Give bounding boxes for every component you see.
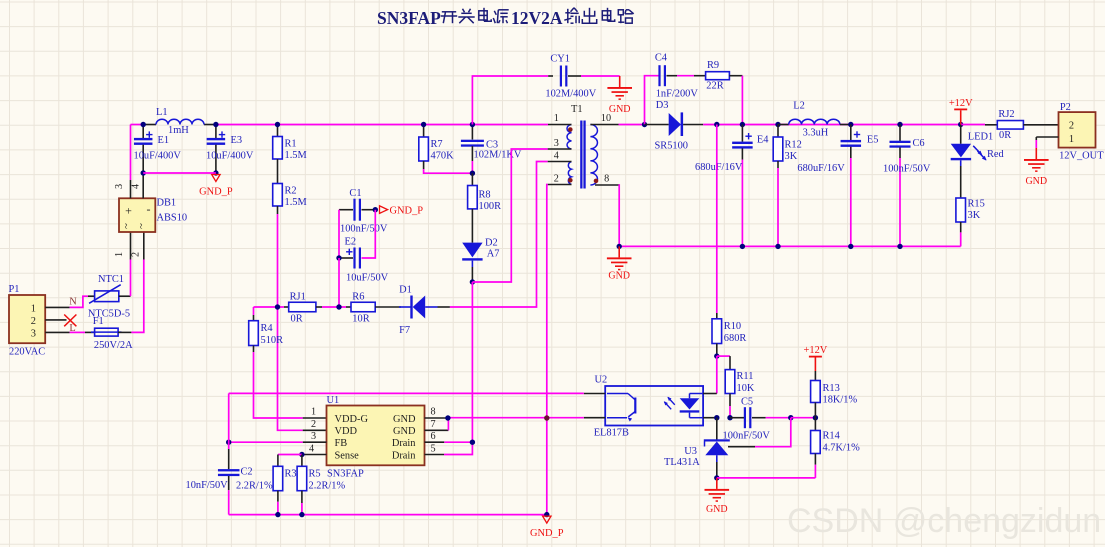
junction U3 anode	[714, 475, 719, 480]
svg-text:-: -	[147, 202, 151, 216]
svg-text:P1: P1	[9, 284, 20, 295]
T1 pin 3	[548, 148, 572, 150]
svg-text:0R: 0R	[291, 314, 303, 325]
T1 pin 4	[548, 161, 572, 163]
svg-text:R4: R4	[261, 323, 274, 334]
wire R7 bottom to C3/R8 node	[423, 161, 425, 169]
svg-text:SR5100: SR5100	[655, 141, 689, 152]
svg-text:2.2R/1%: 2.2R/1%	[236, 481, 273, 492]
svg-text:GND: GND	[1025, 176, 1047, 187]
junction gnd bus E4	[740, 244, 745, 249]
svg-text:U1: U1	[327, 395, 340, 406]
svg-text:R13: R13	[823, 383, 840, 394]
diode D1 F7	[399, 285, 438, 337]
svg-text:GND_P: GND_P	[390, 206, 424, 217]
svg-text:470K: 470K	[431, 151, 455, 162]
wire D1 to T1 pin4 column	[438, 306, 450, 308]
svg-text:R6: R6	[352, 292, 364, 303]
resistor R4 510R	[249, 321, 283, 346]
svg-text:100nF/50V: 100nF/50V	[883, 164, 931, 175]
svg-text:R3: R3	[285, 469, 297, 480]
svg-text:8: 8	[430, 407, 435, 418]
U1 pin 6	[425, 441, 445, 443]
bridge rectifier DB1	[114, 184, 187, 257]
svg-text:R15: R15	[968, 199, 985, 210]
svg-text:2: 2	[311, 419, 316, 430]
svg-text:680uF/16V: 680uF/16V	[797, 163, 845, 174]
svg-text:1.5M: 1.5M	[285, 197, 307, 208]
svg-text:GND_P: GND_P	[199, 187, 233, 198]
wire secondary ground bus	[619, 245, 961, 247]
svg-text:Drain: Drain	[392, 450, 416, 461]
wire U3 ref to C5 node	[728, 446, 755, 448]
svg-text:C4: C4	[655, 53, 668, 64]
no-connect X on pin 2	[64, 315, 76, 327]
svg-text:1: 1	[311, 407, 316, 418]
wire P1 pin3 to F1	[45, 331, 69, 333]
svg-text:1: 1	[114, 252, 125, 257]
svg-text:4.7K/1%: 4.7K/1%	[823, 442, 861, 453]
svg-text:12V2A: 12V2A	[511, 8, 563, 28]
junction Sense node	[299, 452, 304, 457]
junction C5 right	[788, 415, 793, 420]
svg-text:GND: GND	[609, 104, 631, 115]
capacitor E3 10uF/400V	[206, 125, 254, 174]
svg-text:R11: R11	[737, 371, 754, 382]
junction C4 column	[642, 122, 647, 127]
svg-text:10uF/400V: 10uF/400V	[134, 151, 182, 162]
wire FB row	[229, 441, 303, 443]
svg-text:R9: R9	[707, 60, 719, 71]
junction R3 bottom	[275, 512, 280, 517]
wire D2 bottom to T1 pin3	[472, 149, 547, 282]
wire NTC1 to DB1 pin1	[119, 295, 131, 297]
IC U1 SN3FAP	[327, 395, 425, 480]
wire U3 anode row	[717, 477, 816, 479]
svg-text:102M/1KV: 102M/1KV	[474, 150, 522, 161]
U1 pin 5	[425, 454, 445, 456]
svg-text:N: N	[69, 297, 77, 308]
wire R4 top	[253, 307, 255, 315]
junction E5 top	[848, 122, 853, 127]
junction E1 top	[141, 122, 146, 127]
connector P2	[1059, 102, 1105, 162]
svg-text:D2: D2	[485, 238, 498, 249]
svg-text:510R: 510R	[261, 335, 284, 346]
svg-text:E5: E5	[867, 135, 879, 146]
svg-text:GND_P: GND_P	[530, 528, 564, 539]
junction E4 column	[740, 122, 745, 127]
wire E2 left down to RJ1 row	[338, 258, 340, 307]
wire C1 loop left	[338, 210, 340, 258]
svg-text:T1: T1	[571, 104, 583, 115]
svg-text:GND: GND	[393, 426, 416, 437]
svg-text:3K: 3K	[968, 210, 981, 221]
svg-text:1: 1	[31, 304, 36, 315]
junction R1 top	[275, 122, 280, 127]
svg-text:680uF/16V: 680uF/16V	[695, 162, 743, 173]
U1 pin 8	[425, 417, 448, 419]
svg-text:CSDN @chengzidun: CSDN @chengzidun	[787, 502, 1101, 540]
svg-text:Red: Red	[987, 149, 1005, 160]
U1 pin 7	[425, 429, 449, 431]
svg-text:L2: L2	[793, 101, 805, 112]
junction R5 bottom	[299, 512, 304, 517]
svg-text:LED1: LED1	[968, 132, 993, 143]
wire C1 right to E2 right	[362, 210, 376, 258]
svg-text:220VAC: 220VAC	[9, 347, 45, 358]
svg-text:+12V: +12V	[949, 98, 973, 109]
wire R2 down to RJ1 row and U1 VDD	[277, 206, 279, 214]
svg-text:A7: A7	[487, 249, 500, 260]
svg-text:E1: E1	[158, 135, 170, 146]
wire DB1 pin4 up to E1 bottom	[142, 173, 144, 198]
svg-text:1.5M: 1.5M	[285, 150, 307, 161]
resistor R15 3K	[956, 166, 985, 246]
resistor R13 18K/1%	[811, 381, 858, 418]
capacitor C1 100nF/50V	[339, 188, 388, 235]
wire D3 node down to R10	[716, 125, 718, 314]
resistor R1 1.5M	[273, 125, 307, 162]
wire to R13/R14	[791, 417, 816, 419]
T1 pin 1	[548, 124, 572, 126]
resistor R5 2.2R/1%	[297, 455, 345, 515]
T1 pin 10	[590, 124, 618, 126]
wire DB1 pin3 up to bus	[130, 180, 132, 198]
svg-text:R7: R7	[431, 139, 443, 150]
svg-text:RJ2: RJ2	[998, 109, 1014, 120]
svg-text:R8: R8	[479, 190, 491, 201]
svg-text:VDD: VDD	[335, 426, 358, 437]
junction gnd bus R12	[775, 244, 780, 249]
svg-text:C5: C5	[741, 397, 753, 408]
capacitor C3 102M/1KV	[461, 125, 522, 174]
svg-text:U2: U2	[595, 375, 608, 386]
junction C1 right	[373, 207, 378, 212]
capacitor C2 10nF/50V	[186, 393, 253, 514]
svg-text:R12: R12	[785, 140, 802, 151]
optocoupler U2 EL817B	[594, 375, 703, 439]
snubber C4 1nF/200V	[645, 53, 699, 125]
svg-text:D3: D3	[656, 100, 669, 111]
svg-text:~: ~	[122, 223, 133, 229]
svg-text:C6: C6	[913, 138, 925, 149]
svg-text:680R: 680R	[724, 333, 747, 344]
svg-text:R14: R14	[823, 431, 841, 442]
junction C1/E2 column	[336, 304, 341, 309]
svg-text:3: 3	[114, 184, 125, 189]
svg-text:1: 1	[554, 113, 559, 124]
junction drain pins	[470, 440, 475, 445]
wire R4 down to U1 pin1 VDD-G	[253, 346, 255, 353]
T1 pin 8	[595, 184, 619, 186]
svg-text:2: 2	[131, 252, 142, 257]
svg-text:250V/2A: 250V/2A	[94, 340, 133, 351]
junction E2 left	[336, 255, 341, 260]
resistor R7 470K	[419, 125, 454, 162]
ground GND secondary	[618, 246, 620, 257]
svg-text:100R: 100R	[479, 201, 502, 212]
junction FB/C2	[226, 440, 231, 445]
wire D2 bottom down to U1 drains	[471, 282, 473, 442]
svg-text:FB: FB	[335, 438, 348, 449]
svg-text:10: 10	[601, 113, 611, 124]
capacitor C5 100nF/50V	[723, 397, 791, 442]
resistor R12 3K	[773, 125, 802, 247]
svg-text:10R: 10R	[352, 314, 369, 325]
svg-text:5: 5	[430, 444, 435, 455]
svg-text:Drain: Drain	[392, 438, 416, 449]
svg-text:C1: C1	[349, 188, 361, 199]
diode D3 SR5100	[645, 100, 704, 152]
wire U2 pin connections	[584, 393, 605, 395]
svg-text:NTC1: NTC1	[98, 274, 124, 285]
svg-text:10K: 10K	[737, 383, 755, 394]
svg-text:7: 7	[430, 419, 435, 430]
svg-text:E3: E3	[231, 135, 243, 146]
svg-text:3: 3	[31, 328, 36, 339]
svg-text:GND: GND	[706, 504, 728, 515]
resistor R6 10R	[351, 292, 375, 325]
svg-text:SN3FAP: SN3FAP	[327, 469, 364, 480]
svg-text:0R: 0R	[999, 130, 1011, 141]
resistor R14 4.7K/1%	[811, 418, 860, 478]
svg-text:CY1: CY1	[550, 54, 570, 65]
svg-text:C2: C2	[241, 467, 253, 478]
wire U1 pin8 row to U2	[448, 417, 584, 419]
wire P1 pin1 to NTC1	[45, 306, 69, 308]
svg-text:+: +	[125, 204, 132, 218]
junction pin8/pin7	[445, 415, 450, 420]
wire T1 pin2 down to GND_P bus	[546, 185, 549, 515]
T1 pin 2	[548, 184, 572, 186]
junction R10 column	[714, 122, 719, 127]
resistor R10 680R	[712, 319, 746, 356]
junction R11 bottom	[727, 415, 732, 420]
junction E3 bottom	[213, 170, 218, 175]
ground GND at P2	[1035, 148, 1037, 159]
polarity dot pin8	[594, 179, 599, 184]
svg-text:Sense: Sense	[335, 450, 360, 461]
junction GND_P column on pin8 row	[544, 415, 549, 420]
svg-text:R1: R1	[285, 139, 297, 150]
capacitor CY1 102M/400V	[472, 54, 619, 125]
svg-text:102M/400V: 102M/400V	[545, 89, 596, 100]
junction D2 bottom	[470, 279, 475, 284]
thermistor NTC1	[88, 274, 130, 320]
svg-text:~: ~	[137, 223, 148, 229]
wire E1 bottom to E3 bottom	[143, 172, 216, 174]
junction U2 emitter node	[714, 415, 719, 420]
wire pin10 to D3	[619, 124, 645, 126]
svg-text:F7: F7	[399, 325, 410, 336]
wire primary top bus	[131, 124, 144, 126]
svg-text:EL817B: EL817B	[594, 428, 629, 439]
wire D3 cathode bus	[703, 124, 961, 126]
power port GND_P bottom	[543, 516, 551, 523]
svg-text:P2: P2	[1060, 102, 1071, 113]
junction R12/L2	[775, 122, 780, 127]
transformer T1	[567, 104, 597, 189]
capacitor E1 10uF/400V	[134, 125, 182, 174]
wire R9 right down to cathode node	[741, 76, 743, 125]
svg-text:10uF/50V: 10uF/50V	[346, 273, 389, 284]
svg-text:4: 4	[309, 444, 314, 455]
svg-text:+12V: +12V	[804, 345, 828, 356]
wire R10 to U2 collector	[716, 356, 718, 393]
svg-text:F1: F1	[93, 316, 104, 327]
junction R10 bottom	[714, 353, 719, 358]
ground GND at U3	[716, 478, 718, 489]
fuse F1	[91, 316, 133, 351]
svg-text:DB1: DB1	[157, 198, 177, 209]
wire RJ1 row	[254, 306, 285, 308]
wire P1 pin2 no-connect	[45, 319, 66, 321]
ground GND at CY1	[619, 76, 621, 87]
svg-text:R5: R5	[309, 469, 321, 480]
svg-text:VDD-G: VDD-G	[335, 414, 369, 425]
resistor R2 1.5M	[273, 184, 307, 209]
connector P1	[9, 295, 45, 343]
svg-text:100nF/50V: 100nF/50V	[340, 224, 388, 235]
svg-text:U3: U3	[684, 446, 697, 457]
resistor R3 2.2R/1%	[236, 455, 302, 515]
svg-text:2: 2	[31, 316, 36, 327]
svg-text:E4: E4	[757, 135, 769, 146]
resistor R9 22R	[694, 60, 742, 92]
resistor RJ2 0R	[961, 109, 1059, 141]
capacitor C6 100nF/50V	[883, 125, 931, 247]
wire T1 pin8 down to GND	[618, 185, 621, 246]
wire F1 to DB1 pin2	[118, 331, 131, 333]
svg-text:6: 6	[430, 431, 435, 442]
junction R7 top	[421, 122, 426, 127]
junction R13/R14	[813, 415, 818, 420]
svg-text:2: 2	[1069, 121, 1074, 132]
junction C3/R8	[470, 171, 475, 176]
junction C6 top	[897, 122, 902, 127]
svg-text:3K: 3K	[785, 151, 798, 162]
svg-text:1mH: 1mH	[168, 125, 189, 136]
svg-text:18K/1%: 18K/1%	[823, 395, 858, 406]
svg-text:3: 3	[554, 138, 559, 149]
diode D2 A7	[462, 209, 499, 282]
junction +12V/LED column	[958, 122, 963, 127]
svg-text:2.2R/1%: 2.2R/1%	[309, 481, 346, 492]
junction gnd bus C6	[897, 244, 902, 249]
power port GND_P at E3 bottom	[212, 175, 220, 182]
junction gnd bus E5	[848, 244, 853, 249]
polarity dot pin1	[568, 127, 573, 132]
wire FB line to U2 top-left	[229, 392, 584, 394]
svg-text:4: 4	[554, 151, 559, 162]
junction C3 top	[470, 122, 475, 127]
capacitor E4 680uF/16V	[695, 125, 769, 247]
junction gnd bus at T1	[617, 244, 622, 249]
title SN3FAP switching supply 12V2A output circuit	[377, 8, 634, 28]
inductor L1 1mH	[156, 107, 204, 136]
svg-text:RJ1: RJ1	[290, 292, 306, 303]
junction E3 top	[213, 122, 218, 127]
svg-text:E2: E2	[345, 237, 357, 248]
svg-text:TL431A: TL431A	[664, 457, 700, 468]
inductor L2 3.3uH	[778, 101, 851, 139]
svg-text:8: 8	[604, 174, 609, 185]
wire bottom GND_P bus	[229, 514, 547, 516]
svg-text:GND: GND	[608, 270, 630, 281]
polarity dot pin2	[568, 178, 573, 183]
svg-text:1nF/200V: 1nF/200V	[656, 89, 699, 100]
svg-text:R10: R10	[724, 321, 741, 332]
svg-text:1: 1	[1069, 134, 1074, 145]
svg-text:L1: L1	[156, 107, 168, 118]
resistor R8 100R	[468, 173, 501, 212]
junction R2 column on RJ1 row	[275, 304, 280, 309]
capacitor E5 680uF/16V	[797, 125, 878, 247]
junction GND_P bus end	[544, 512, 549, 517]
svg-text:10nF/50V: 10nF/50V	[186, 480, 229, 491]
LED LED1 Red	[951, 125, 1005, 167]
junction E1 bottom	[141, 170, 146, 175]
svg-text:12V_OUT: 12V_OUT	[1059, 151, 1104, 162]
svg-text:R2: R2	[285, 186, 297, 197]
power port GND_P at C1	[380, 206, 424, 217]
svg-text:4: 4	[131, 184, 142, 189]
svg-text:GND: GND	[393, 414, 416, 425]
svg-text:SN3FAP: SN3FAP	[377, 8, 441, 28]
capacitor E2 10uF/50V	[339, 237, 389, 284]
resistor RJ1 0R	[289, 292, 316, 325]
svg-text:ABS10: ABS10	[157, 213, 188, 224]
shunt regulator U3 TL431A	[664, 418, 730, 478]
resistor R11 10K	[717, 356, 755, 418]
wire R1-R2	[277, 159, 279, 184]
svg-text:10uF/400V: 10uF/400V	[206, 151, 254, 162]
svg-text:D1: D1	[399, 285, 412, 296]
svg-text:3.3uH: 3.3uH	[803, 128, 829, 139]
svg-text:3: 3	[311, 431, 316, 442]
svg-text:22R: 22R	[706, 81, 723, 92]
wire P2 pin1 to GND	[1036, 136, 1058, 138]
svg-text:2: 2	[554, 174, 559, 185]
